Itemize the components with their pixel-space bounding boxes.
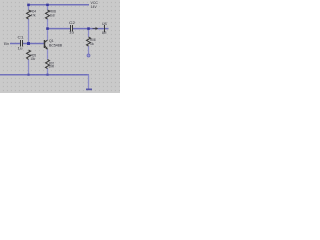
svg-text:BC548B: BC548B (49, 44, 63, 48)
svg-text:1k: 1k (90, 42, 94, 46)
svg-text:1k8: 1k8 (50, 14, 55, 18)
svg-text:1u: 1u (69, 31, 74, 35)
svg-text:Q1: Q1 (49, 39, 54, 43)
svg-text:47k: 47k (31, 14, 36, 18)
svg-text:C2: C2 (69, 21, 75, 25)
svg-text:C1: C1 (18, 36, 24, 40)
svg-text:1u: 1u (18, 47, 23, 51)
svg-text:14V: 14V (91, 5, 98, 9)
svg-text:8R: 8R (102, 31, 107, 35)
svg-text:US: US (102, 22, 108, 26)
svg-text:Ein: Ein (4, 42, 9, 46)
svg-text:10R: 10R (49, 65, 55, 69)
svg-text:10k: 10k (31, 57, 36, 61)
